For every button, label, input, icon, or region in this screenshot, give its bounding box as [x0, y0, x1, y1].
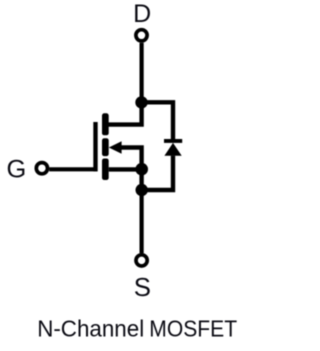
wire: source segment stub to source node	[109, 167, 142, 171]
MOSFET Q1: drain channel segment (top bar)	[102, 113, 109, 135]
wire: source node to diode anode node	[139, 169, 143, 190]
wire: anode node right and up to diode anode	[142, 156, 173, 190]
node: drain junction dot	[135, 96, 147, 108]
svg-text:G: G	[7, 156, 27, 184]
node: source junction dot	[135, 163, 148, 176]
MOSFET Q1: gate electrode line	[93, 122, 97, 171]
wire: drain node down and left to MOSFET drain segment	[105, 102, 142, 124]
MOSFET Q1: body channel segment (middle bar)	[102, 138, 109, 156]
wire: drain node right and down to diode cathode	[142, 102, 173, 140]
wire: gate lead from G circle to gate electrode	[49, 122, 95, 169]
drain terminal circle D	[136, 30, 147, 41]
MOSFET Q1: body arrow (points into channel, N-channel)	[109, 141, 122, 153]
MOSFET Q1: source channel segment (bottom bar)	[102, 159, 109, 181]
wire: drain lead from D circle to drain node	[140, 43, 144, 103]
svg-text:MOSFET: MOSFET	[149, 315, 237, 341]
wire: body connection from arrow to source node	[121, 148, 142, 170]
svg-text:N-Channel: N-Channel	[37, 315, 144, 341]
body diode D1: cathode bar	[164, 139, 182, 143]
node: diode anode junction dot	[136, 184, 148, 196]
source terminal circle S	[136, 255, 147, 266]
gate terminal circle G	[36, 163, 47, 174]
svg-text:S: S	[134, 274, 151, 302]
body diode D1: anode triangle	[164, 143, 181, 156]
svg-text:D: D	[133, 0, 151, 28]
wire: source lead from anode node to S circle	[140, 190, 144, 253]
